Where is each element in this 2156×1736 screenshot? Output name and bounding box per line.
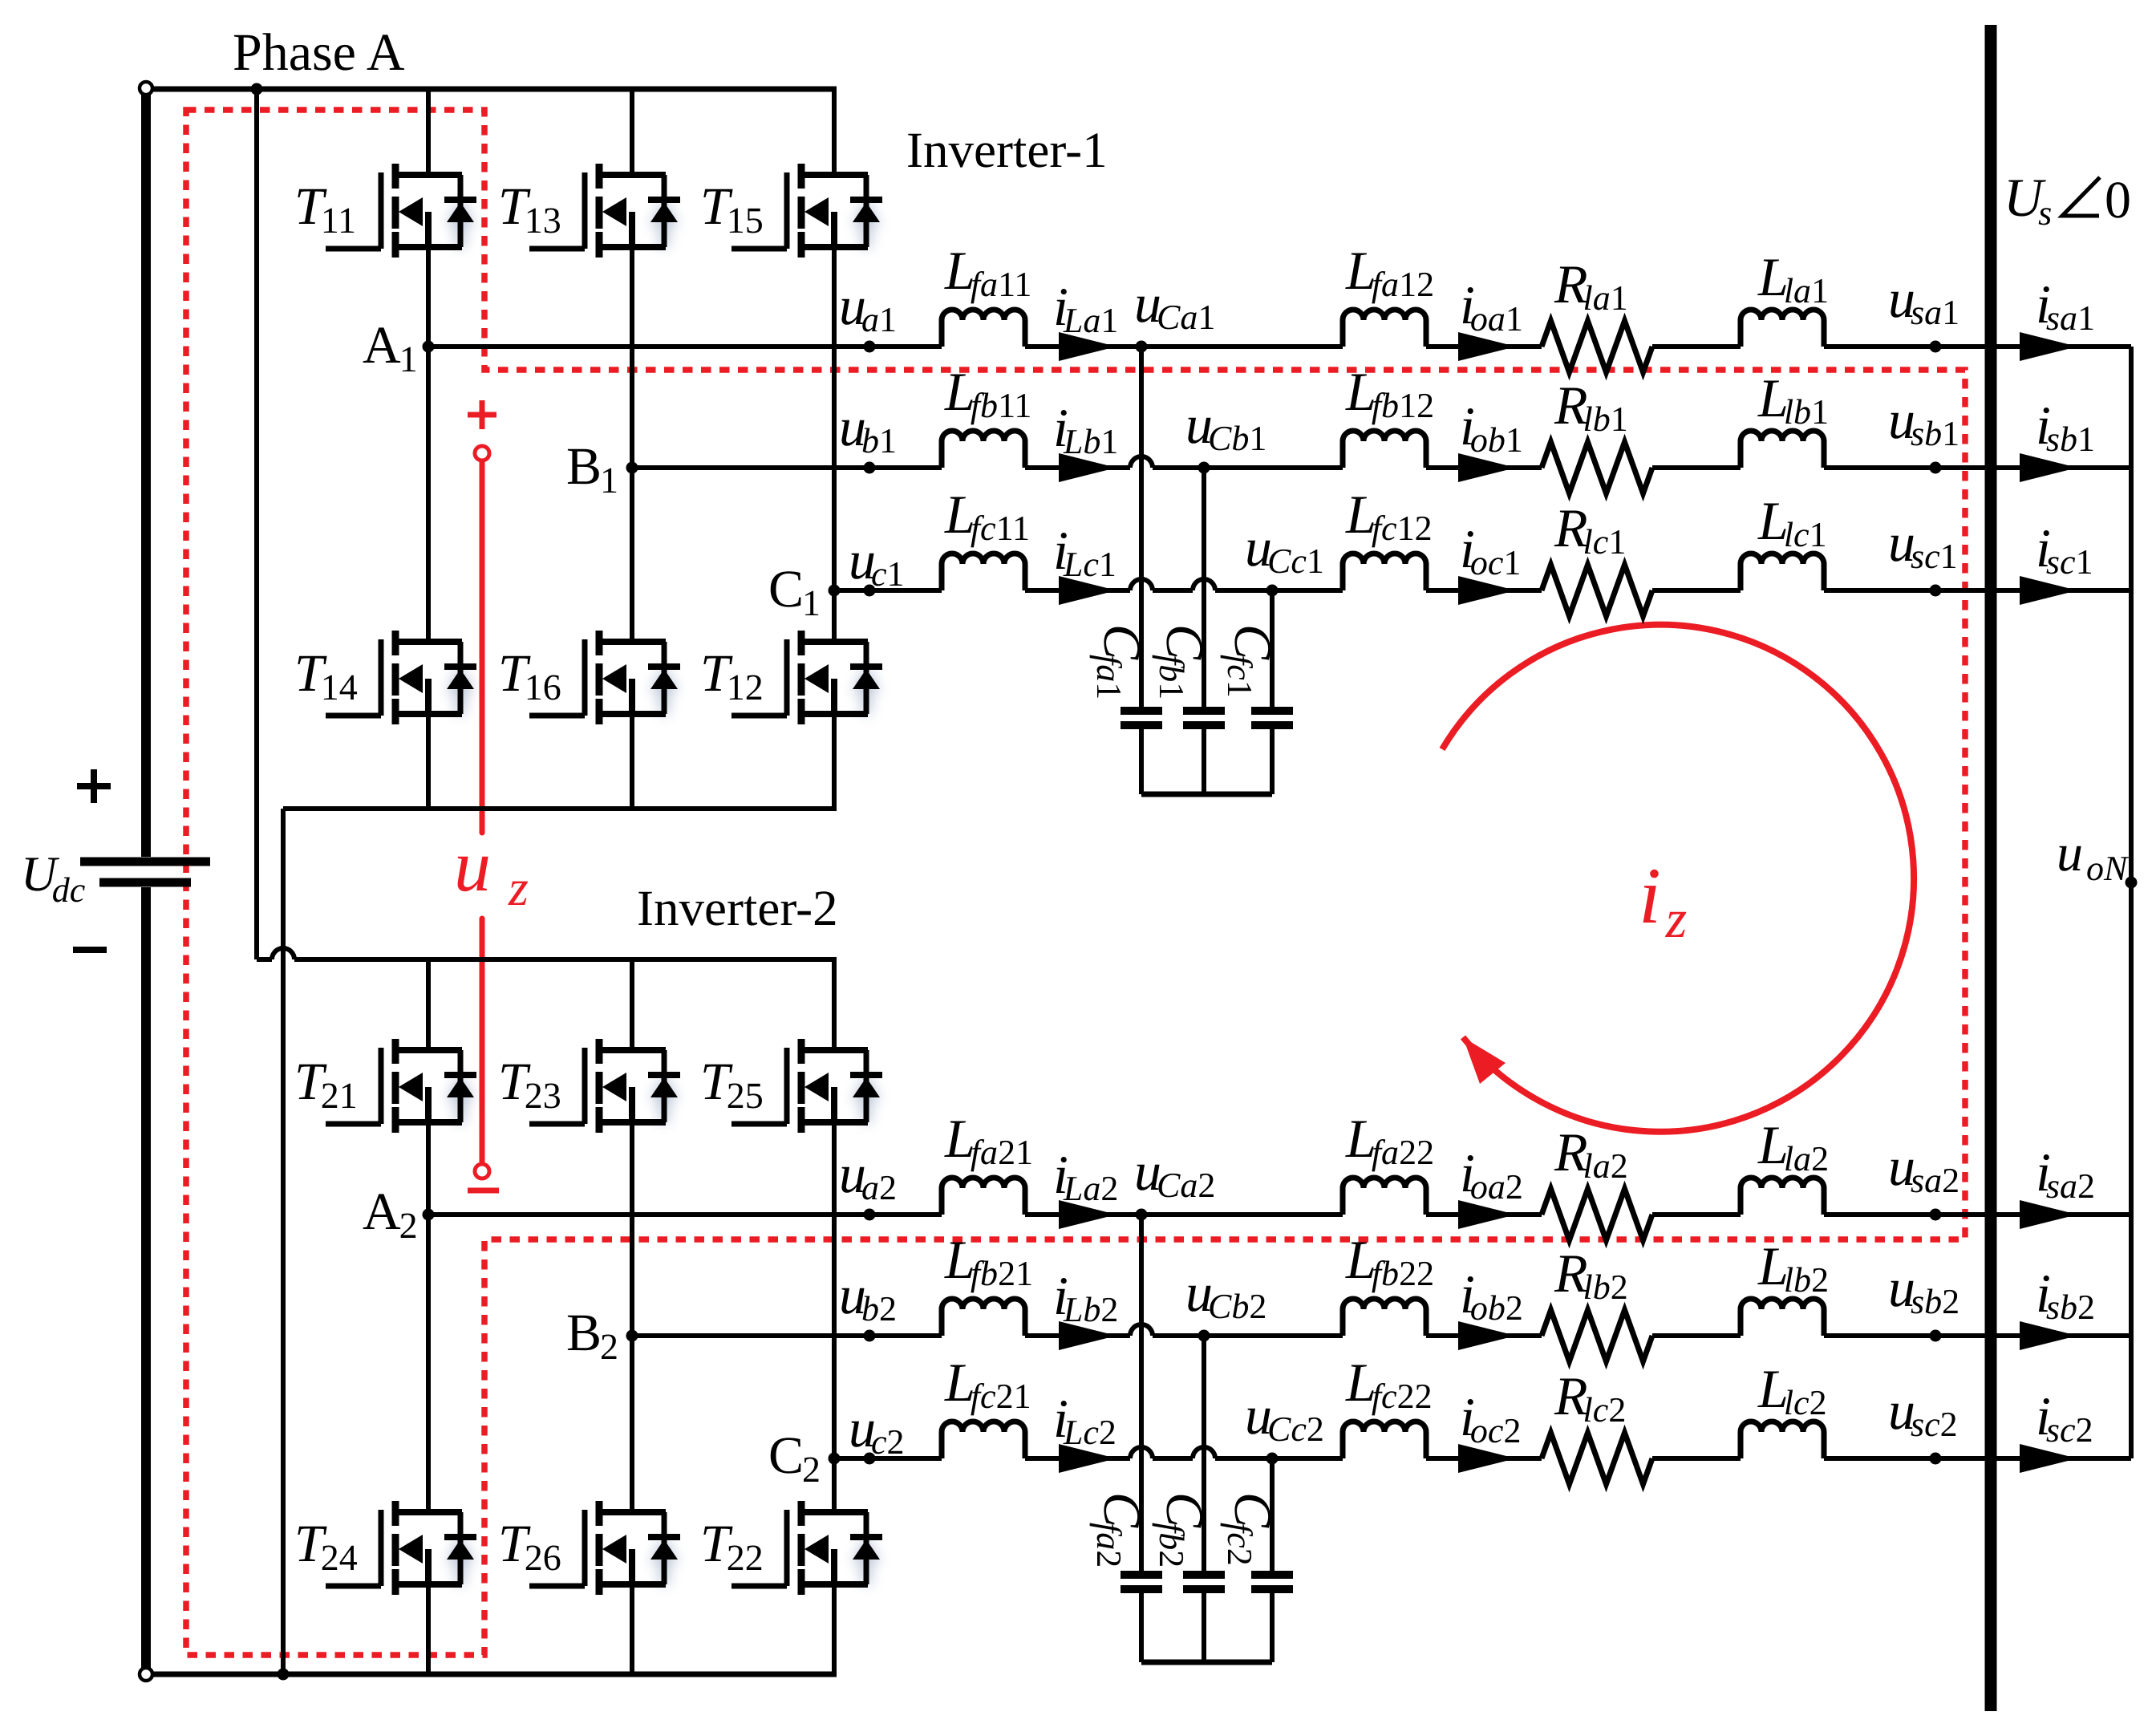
svg-text:isa1: isa1 [2036, 274, 2095, 338]
svg-text:C1: C1 [768, 560, 821, 623]
svg-text:T21: T21 [294, 1053, 358, 1116]
svg-text:Inverter-2: Inverter-2 [637, 880, 838, 936]
svg-text:iLa2: iLa2 [1053, 1144, 1118, 1208]
svg-text:Lfa12: Lfa12 [1345, 240, 1434, 304]
svg-text:Rlb2: Rlb2 [1554, 1243, 1628, 1307]
svg-text:ioc1: ioc1 [1460, 518, 1521, 582]
svg-text:ub2: ub2 [839, 1264, 897, 1328]
svg-text:uc2: uc2 [849, 1397, 905, 1462]
svg-text:iLc2: iLc2 [1053, 1388, 1116, 1452]
svg-text:0: 0 [2105, 171, 2131, 229]
svg-text:usb2: usb2 [1888, 1257, 1959, 1321]
svg-text:B1: B1 [566, 437, 618, 501]
svg-text:Lfc12: Lfc12 [1345, 484, 1433, 548]
svg-text:T15: T15 [700, 177, 764, 241]
svg-text:B2: B2 [566, 1304, 618, 1367]
svg-text:T22: T22 [700, 1515, 764, 1578]
svg-text:Llb1: Llb1 [1757, 367, 1829, 432]
svg-text:ioa1: ioa1 [1460, 274, 1523, 339]
svg-text:ioa2: ioa2 [1460, 1142, 1523, 1207]
svg-text:uCc2: uCc2 [1245, 1385, 1324, 1449]
svg-text:ioc2: ioc2 [1460, 1386, 1521, 1450]
svg-text:uc1: uc1 [849, 529, 905, 594]
svg-text:iLb2: iLb2 [1053, 1265, 1118, 1329]
svg-text:Rlc1: Rlc1 [1554, 497, 1626, 562]
svg-text:Inverter-1: Inverter-1 [906, 122, 1108, 178]
svg-text:Udc: Udc [21, 847, 86, 910]
svg-text:A2: A2 [363, 1182, 418, 1246]
svg-text:T23: T23 [498, 1053, 561, 1116]
svg-text:T14: T14 [294, 644, 358, 708]
svg-text:T12: T12 [700, 644, 764, 708]
svg-text:Lfc22: Lfc22 [1345, 1352, 1433, 1416]
svg-text:uCb2: uCb2 [1185, 1262, 1266, 1326]
svg-text:C2: C2 [768, 1426, 821, 1490]
svg-text:ua1: ua1 [839, 275, 897, 339]
svg-text:Lfa21: Lfa21 [944, 1108, 1033, 1172]
svg-text:Llb2: Llb2 [1757, 1235, 1829, 1300]
svg-text:Us: Us [2004, 167, 2052, 233]
svg-text:Rlb1: Rlb1 [1554, 375, 1628, 439]
svg-text:usa1: usa1 [1888, 268, 1959, 332]
svg-text:usa2: usa2 [1888, 1136, 1959, 1200]
svg-text:isb1: isb1 [2036, 395, 2095, 459]
svg-text:T13: T13 [498, 177, 561, 241]
svg-text:uz: uz [454, 825, 529, 916]
svg-text:usc2: usc2 [1888, 1380, 1958, 1444]
svg-text:Phase A: Phase A [233, 23, 405, 82]
svg-text:iLb1: iLb1 [1053, 397, 1118, 461]
svg-text:iob2: iob2 [1460, 1263, 1523, 1328]
svg-text:ub1: ub1 [839, 396, 897, 460]
svg-text:uoN: uoN [2057, 824, 2130, 888]
svg-text:Rla1: Rla1 [1554, 254, 1628, 318]
svg-text:isc2: isc2 [2036, 1385, 2093, 1450]
svg-text:isc1: isc1 [2036, 517, 2093, 582]
svg-text:isa2: isa2 [2036, 1142, 2095, 1206]
svg-text:Lfc21: Lfc21 [944, 1352, 1031, 1416]
svg-text:isb2: isb2 [2036, 1263, 2095, 1327]
svg-text:Lfb21: Lfb21 [944, 1229, 1033, 1293]
svg-text:Lfa22: Lfa22 [1345, 1108, 1434, 1172]
svg-text:Lfc11: Lfc11 [944, 484, 1030, 548]
svg-text:A1: A1 [363, 316, 418, 379]
svg-text:Llc2: Llc2 [1757, 1358, 1827, 1422]
svg-text:T11: T11 [294, 177, 356, 241]
svg-text:Lla2: Lla2 [1757, 1114, 1829, 1178]
svg-text:T16: T16 [498, 644, 561, 708]
svg-text:Llc1: Llc1 [1757, 490, 1827, 554]
svg-text:iob1: iob1 [1460, 395, 1523, 460]
svg-text:T26: T26 [498, 1515, 561, 1578]
svg-text:Rlc2: Rlc2 [1554, 1365, 1626, 1430]
svg-text:ua2: ua2 [839, 1143, 897, 1207]
svg-text:uCa2: uCa2 [1134, 1141, 1215, 1205]
svg-text:iz: iz [1639, 851, 1687, 949]
svg-text:Lfa11: Lfa11 [944, 240, 1031, 304]
svg-text:Lla1: Lla1 [1757, 246, 1829, 310]
svg-text:usb1: usb1 [1888, 389, 1959, 453]
svg-text:uCc1: uCc1 [1245, 517, 1324, 581]
svg-text:T24: T24 [294, 1515, 358, 1578]
svg-text:uCb1: uCb1 [1185, 394, 1266, 458]
svg-text:uCa1: uCa1 [1134, 273, 1215, 337]
svg-text:usc1: usc1 [1888, 512, 1958, 576]
svg-text:iLc1: iLc1 [1053, 520, 1116, 584]
svg-text:iLa1: iLa1 [1053, 276, 1118, 340]
svg-text:T25: T25 [700, 1053, 764, 1116]
